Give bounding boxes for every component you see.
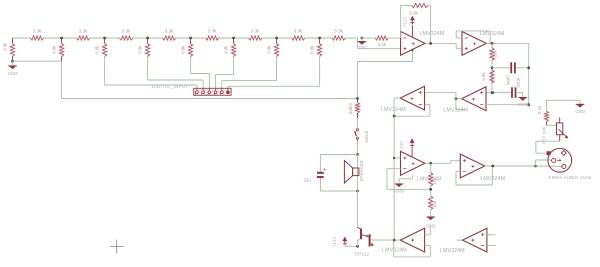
svg-text:6.8k: 6.8k	[481, 72, 486, 81]
svg-text:3.3k: 3.3k	[208, 28, 217, 33]
svg-text:6.8k: 6.8k	[309, 45, 314, 54]
svg-text:POT 10K: POT 10K	[542, 126, 547, 144]
svg-text:0.1k: 0.1k	[537, 105, 542, 114]
svg-text:94nF: 94nF	[505, 75, 510, 85]
svg-text:SPEAKER: SPEAKER	[359, 159, 364, 181]
svg-text:3.3k: 3.3k	[409, 11, 418, 16]
svg-text:3.3k: 3.3k	[79, 28, 88, 33]
svg-text:TIP122: TIP122	[354, 251, 369, 256]
svg-text:LMV324M: LMV324M	[382, 248, 407, 254]
svg-text:3.3k: 3.3k	[377, 42, 386, 47]
svg-text:switch: switch	[364, 130, 369, 143]
svg-text:3.3k: 3.3k	[294, 28, 303, 33]
svg-text:GND: GND	[575, 109, 585, 114]
svg-text:GND: GND	[426, 224, 436, 229]
svg-text:5ohm: 5ohm	[348, 103, 353, 114]
svg-text:+12V: +12V	[332, 237, 337, 247]
svg-text:6.8k: 6.8k	[137, 45, 142, 54]
svg-text:3.3k: 3.3k	[334, 28, 343, 33]
svg-text:10k: 10k	[432, 200, 437, 208]
svg-text:6.8k: 6.8k	[51, 45, 56, 54]
svg-text:+12V: +12V	[399, 141, 404, 151]
svg-text:3.3k: 3.3k	[251, 28, 260, 33]
svg-text:3.3k: 3.3k	[122, 28, 131, 33]
svg-text:6.8k: 6.8k	[266, 45, 271, 54]
svg-text:3.3k: 3.3k	[33, 28, 42, 33]
svg-text:6.8k: 6.8k	[180, 45, 185, 54]
svg-text:47nF: 47nF	[516, 77, 521, 87]
svg-text:6.8k: 6.8k	[94, 45, 99, 54]
svg-text:6.8k: 6.8k	[2, 42, 7, 51]
svg-text:3.3k: 3.3k	[165, 28, 174, 33]
svg-text:LMV324M: LMV324M	[480, 176, 505, 182]
svg-text:DIGITAL_INPUT: DIGITAL_INPUT	[152, 84, 188, 89]
svg-text:3.9mm AUDIO JACK: 3.9mm AUDIO JACK	[548, 175, 592, 180]
svg-text:6.8k: 6.8k	[223, 45, 228, 54]
svg-text:LMV324M: LMV324M	[420, 31, 445, 37]
svg-text:6.8k: 6.8k	[493, 50, 498, 59]
svg-text:LMV324M: LMV324M	[440, 248, 465, 254]
svg-text:+12V: +12V	[403, 17, 408, 27]
svg-text:GND: GND	[8, 71, 18, 76]
svg-text:LMV324M: LMV324M	[381, 107, 406, 113]
svg-text:22u: 22u	[304, 178, 312, 183]
svg-text:GND: GND	[357, 45, 366, 50]
svg-text:LMV324M: LMV324M	[480, 31, 505, 37]
svg-text:10k: 10k	[432, 177, 437, 185]
